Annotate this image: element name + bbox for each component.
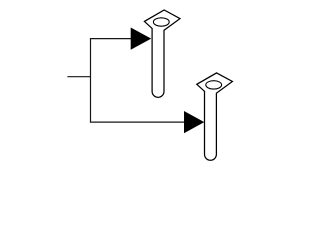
pin symbol P2 head (diamond plate) xyxy=(197,73,233,97)
arrowhead to pin 1 xyxy=(131,28,152,50)
pin symbol P2 hole (ellipse) xyxy=(206,81,222,89)
wire top branch xyxy=(90,38,132,40)
wire bottom branch xyxy=(90,121,186,123)
wire input stub xyxy=(67,76,90,78)
wire trunk (vertical) xyxy=(90,39,92,123)
pin symbol P1 hole (ellipse) xyxy=(153,18,169,26)
pin symbol P2 shaft xyxy=(205,91,217,160)
pin symbol P1 head (diamond plate) xyxy=(144,10,180,34)
pin symbol P1 shaft xyxy=(152,28,164,97)
arrowhead to pin 2 xyxy=(184,111,204,133)
